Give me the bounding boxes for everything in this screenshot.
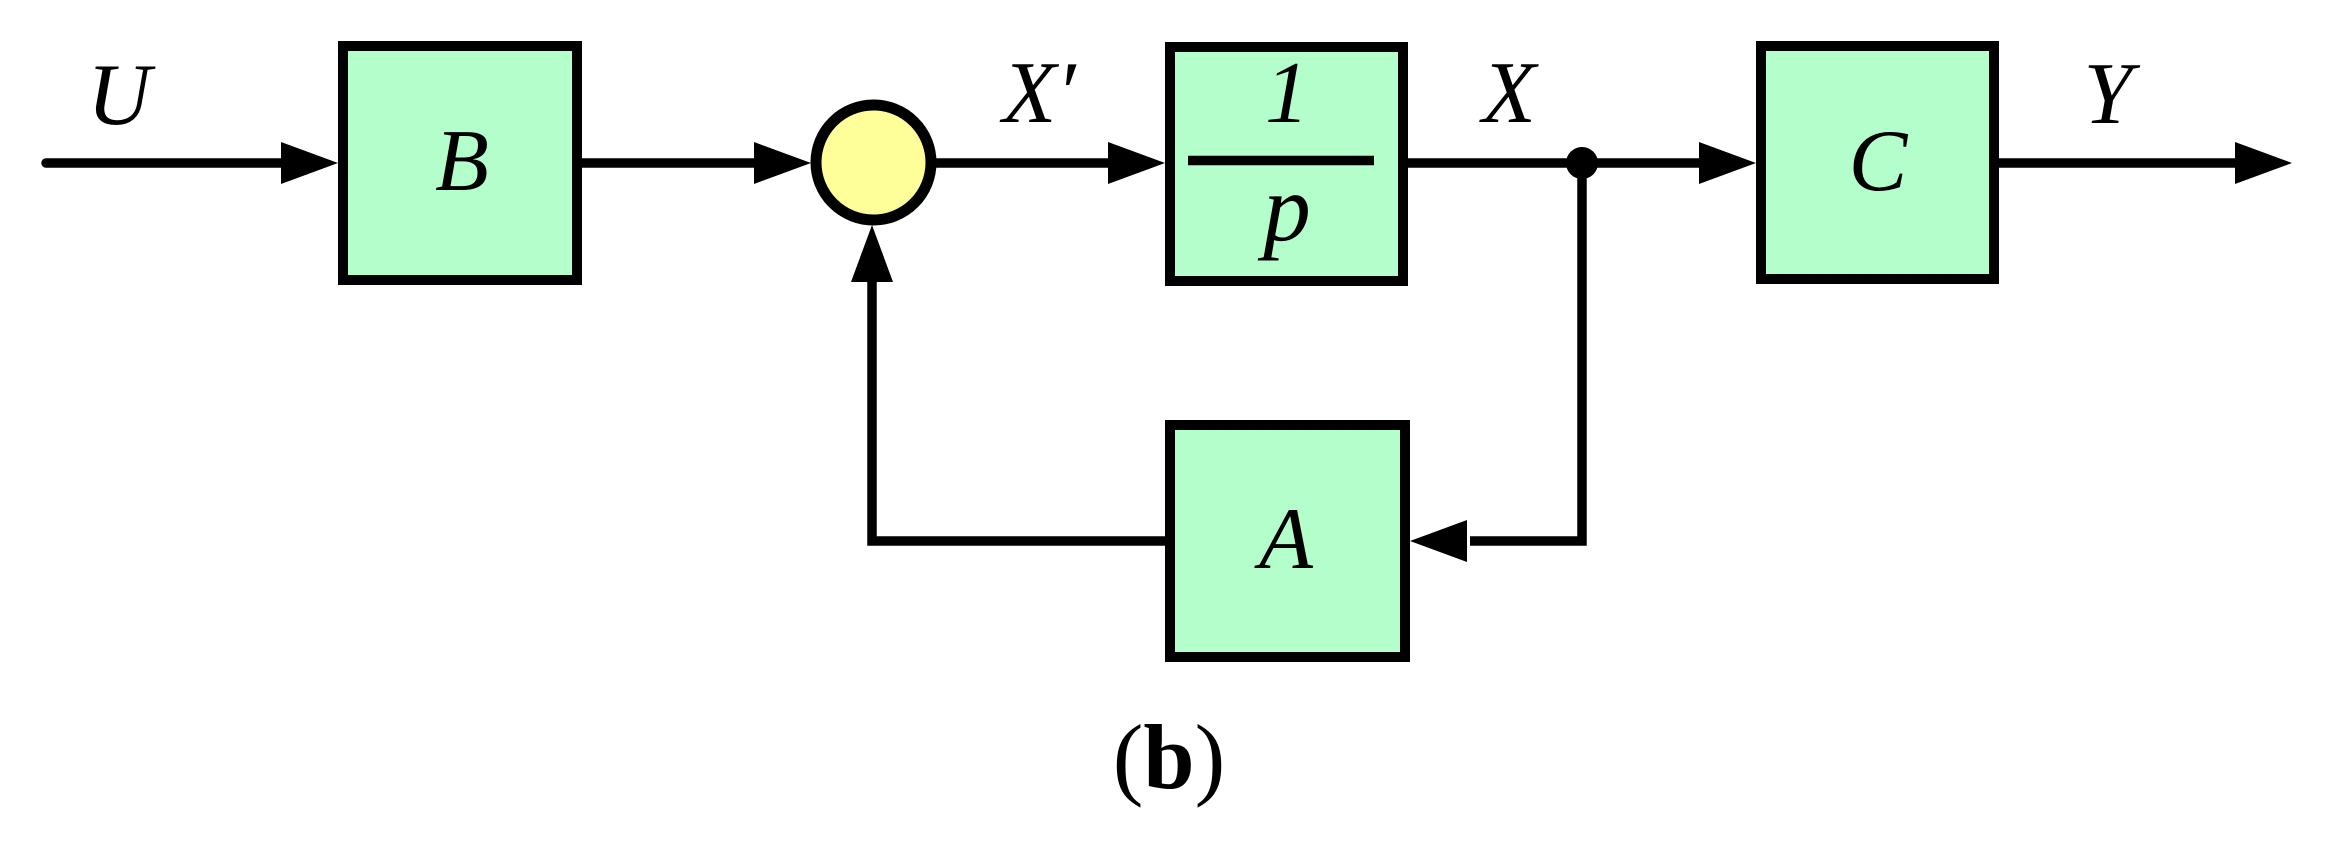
block C: [1761, 46, 1994, 279]
junction dot node X: [1566, 147, 1598, 179]
arrowhead into integrator: [1108, 142, 1165, 184]
svg-text:X′: X′: [999, 45, 1077, 142]
wire feedback from junction down and left into A: [1470, 163, 1582, 541]
arrowhead into B: [281, 142, 338, 184]
arrowhead up into summing junction: [851, 225, 893, 282]
svg-text:U: U: [87, 47, 156, 144]
svg-text:1: 1: [1265, 45, 1309, 142]
arrowhead output Y: [2235, 142, 2292, 184]
wire A output left and up to summing junction: [872, 278, 1165, 541]
block A: [1170, 425, 1405, 657]
block B: [343, 46, 577, 280]
wire U input: [46, 158, 290, 168]
block 1/p integrator: [1170, 47, 1403, 281]
svg-text:Y: Y: [2084, 46, 2141, 143]
arrowhead into A: [1410, 520, 1467, 562]
svg-text:A: A: [1254, 491, 1314, 588]
arrowhead into summing junction: [754, 142, 811, 184]
wire C to output Y: [1999, 158, 2240, 168]
wire summing junction to integrator: [936, 158, 1112, 168]
arrowhead into C: [1699, 142, 1756, 184]
wire B to summing junction: [582, 158, 760, 168]
svg-text:p: p: [1257, 155, 1311, 261]
svg-text:C: C: [1849, 113, 1909, 210]
svg-text:(b): (b): [1113, 706, 1225, 808]
svg-text:X: X: [1479, 45, 1539, 142]
svg-text:B: B: [435, 113, 489, 210]
wire integrator to C: [1408, 158, 1704, 168]
summing junction: [816, 105, 931, 220]
